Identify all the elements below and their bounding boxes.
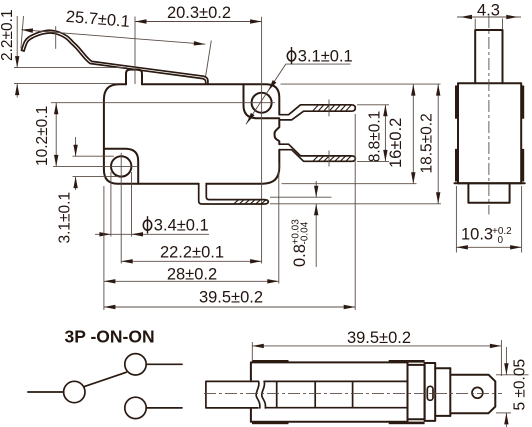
end view body	[458, 83, 521, 183]
upper terminal tick	[328, 100, 330, 117]
end view vertical centerline (dash-dot)	[488, 16, 490, 215]
svg-text:10.2±0.1: 10.2±0.1	[34, 106, 51, 166]
hole 3.4 vertical centerline / extension	[120, 153, 122, 264]
end view plunger	[475, 30, 502, 83]
bottom view horizontal centerline (dash-dot)	[204, 393, 502, 395]
hole boss bottom-left (around 3.4 hole)	[104, 149, 138, 184]
dim 10.3 line + arrows	[456, 246, 521, 248]
svg-text:3.4±0.1: 3.4±0.1	[154, 217, 209, 235]
switch body right edge notch between terminals	[274, 120, 279, 144]
lever hump apex tick mark	[55, 26, 57, 49]
label phi3.1 leader line	[246, 64, 351, 124]
upper terminal hatching	[313, 105, 351, 111]
extension below hole 3.4 left edge	[110, 172, 112, 237]
bottom view step C	[435, 368, 450, 416]
hole boss top-right (around 3.1 hole)	[244, 84, 280, 118]
svg-text:28±0.2: 28±0.2	[167, 266, 217, 284]
dim 20.3 line + arrows	[135, 21, 262, 23]
dim 5 extension lines	[496, 374, 529, 376]
svg-text:10.3: 10.3	[461, 225, 493, 243]
extension below body left edge	[103, 186, 105, 310]
dim 3.1 line + arrows	[75, 137, 77, 156]
label phi3.4 text	[143, 216, 208, 234]
dim 2.2 line + arrows	[16, 16, 18, 68]
hole 3.4 circle	[111, 156, 131, 176]
extension right of upper terminal top	[357, 104, 389, 106]
NC terminal circle	[125, 397, 146, 418]
end view body rib left lower	[455, 149, 459, 182]
hole 3.1 circle	[252, 93, 272, 113]
extension right of lower terminal bottom	[357, 160, 389, 162]
svg-text:-0.04: -0.04	[300, 221, 311, 244]
svg-text:4.3: 4.3	[477, 1, 500, 19]
common terminal circle	[64, 381, 85, 402]
hole 3.1 horizontal centerline	[51, 102, 275, 104]
dim 10.2 line + arrows	[55, 103, 57, 167]
svg-text:18.5±0.2: 18.5±0.2	[419, 113, 436, 173]
end view body rib left upper	[455, 86, 459, 119]
svg-text:25.7±0.1: 25.7±0.1	[65, 8, 130, 31]
extension right of body top	[281, 83, 441, 85]
dim 8.8 line + arrows	[384, 105, 386, 162]
lower terminal tick	[328, 151, 330, 167]
dim 20.3 extension line (plunger centerline)	[134, 17, 136, 85]
svg-text:2.2±0.1: 2.2±0.1	[0, 9, 16, 61]
common lead wire	[28, 391, 64, 393]
svg-text:20.3±0.2: 20.3±0.2	[167, 4, 231, 22]
dim 22.2 line + arrows	[121, 260, 261, 262]
lower right terminal (NC)	[279, 144, 355, 161]
dim 0.8 text with tolerances	[291, 219, 311, 267]
extension below terminal tips	[354, 114, 356, 310]
NC lead wire	[146, 407, 182, 409]
svg-text:16±0.2: 16±0.2	[387, 118, 405, 168]
svg-text:8.8±0.1: 8.8±0.1	[366, 111, 383, 163]
svg-text:22.2±0.1: 22.2±0.1	[160, 243, 224, 261]
switch body outline top-left-right	[104, 84, 279, 169]
end view bottom protrusion	[468, 183, 509, 203]
dim 3.1 extension lines	[73, 155, 115, 157]
dim 28 line + arrows	[104, 280, 279, 282]
bottom terminal hatching	[234, 200, 266, 204]
end view body rib right upper	[521, 86, 525, 119]
end view body rib right lower	[521, 149, 525, 182]
dim 0.8 line + arrows	[315, 181, 317, 197]
dim 0.8 extension lines	[270, 196, 332, 198]
bottom view plunger hole	[472, 387, 483, 398]
bottom view body	[251, 362, 408, 421]
bottom view step A	[408, 365, 425, 419]
hole 3.4 horizontal centerline	[53, 165, 137, 167]
dim 5 line + outside arrows	[505, 347, 507, 375]
svg-text:3.1±0.1: 3.1±0.1	[57, 192, 74, 244]
lower terminal hatching	[313, 156, 351, 161]
bottom view body top bumps	[252, 360, 289, 363]
lever arm (curved simulated-roller lever) outer line	[22, 30, 208, 84]
dim 25.7 line + arrows	[21, 30, 205, 45]
extension below body right edge	[278, 163, 280, 284]
svg-text:39.5±0.2: 39.5±0.2	[347, 329, 411, 347]
bottom terminal (common, L-shaped)	[199, 184, 269, 204]
dim 10.3 extension lines	[455, 186, 457, 253]
bottom view plunger block with chamfered end	[450, 368, 495, 416]
dim 16 line + arrows	[412, 84, 414, 184]
bottom view lever break S-curve 2	[262, 381, 266, 408]
bottom view lever break S-curve 1	[256, 381, 260, 408]
svg-text:3P -ON-ON: 3P -ON-ON	[65, 326, 155, 346]
dim 4.3 extension lines	[474, 19, 476, 30]
dim 25.7 extension lines (slanted)	[21, 16, 24, 49]
extension right of body bottom	[282, 183, 417, 185]
plunger button (main view)	[126, 70, 142, 85]
NO lead wire	[146, 363, 182, 365]
svg-text:39.5±0.2: 39.5±0.2	[199, 289, 263, 307]
svg-text:3.1±0.1: 3.1±0.1	[298, 47, 353, 65]
bottom view body bottom bumps	[252, 422, 289, 425]
NO terminal circle	[125, 354, 146, 375]
dim 4.3 line + outside arrows	[457, 16, 521, 18]
dim 2.2 extension lines	[14, 67, 127, 69]
hole 3.1 vertical centerline / extension	[261, 17, 263, 264]
bottom view flange B	[425, 363, 436, 421]
dim 39.5 (bottom view) line + arrows	[252, 345, 501, 347]
switch body bottom edge + bottom-left corner	[104, 170, 199, 184]
label phi3.4 leader line + arrows	[95, 233, 209, 235]
extension below hole 3.4 right edge	[131, 172, 133, 237]
switch body right edge lower + bottom-right corner	[206, 150, 279, 184]
lever arm inner line	[22, 33, 206, 84]
label phi3.1 text	[287, 47, 352, 65]
bottom view lever channel	[264, 381, 407, 407]
svg-text:5 ±0.05: 5 ±0.05	[512, 359, 529, 411]
dim 18.5 line + arrows	[437, 84, 439, 204]
switch lever line	[84, 372, 126, 386]
dim 39.5 (bottom view) extension lines	[251, 342, 253, 361]
bottom view lever bar	[206, 381, 258, 408]
bottom view detent oval	[427, 386, 433, 400]
dim 39.5 line + arrows	[104, 306, 355, 308]
svg-text:0.8: 0.8	[291, 244, 309, 267]
svg-text:0: 0	[498, 235, 504, 246]
upper right terminal (NO)	[279, 105, 355, 120]
